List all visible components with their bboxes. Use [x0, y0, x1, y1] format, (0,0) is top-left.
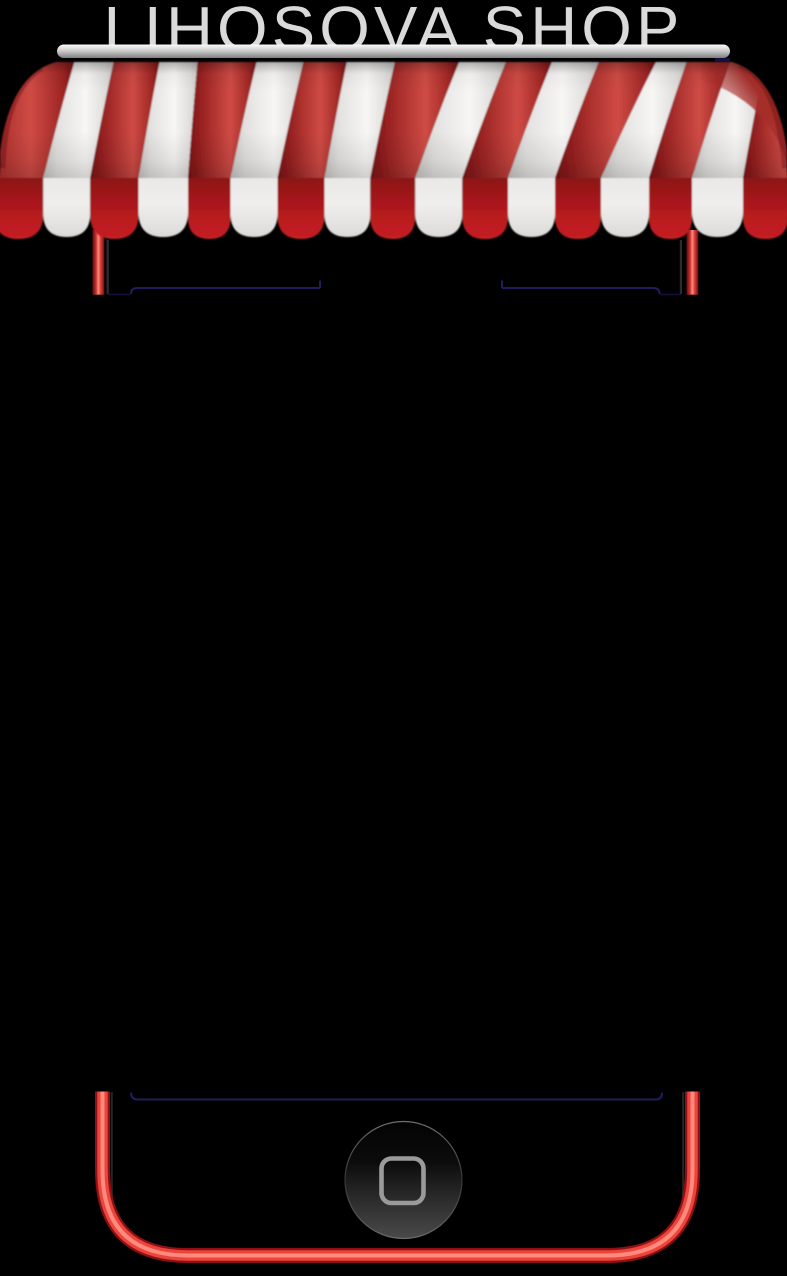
screen border top tick right of gap	[501, 281, 503, 289]
left pole inner dark edge	[107, 240, 109, 294]
awning top rail	[57, 45, 730, 59]
awning scalloped tabs	[0, 172, 787, 239]
screen border bottom navy line	[131, 1093, 662, 1100]
screen border top tick left of gap	[319, 281, 321, 289]
small navy mark at rail right end	[715, 58, 730, 62]
right corner rim shading	[740, 63, 787, 168]
awning canopy stripes	[0, 58, 787, 178]
screen border top-right navy segment	[502, 288, 660, 294]
screen border top-left faint extension	[108, 294, 130, 296]
left pole	[93, 230, 105, 295]
home button rounded square	[382, 1159, 424, 1204]
phone inner dark edge line (bottom U)	[112, 1092, 683, 1250]
screen border top-left navy segment	[131, 288, 320, 294]
screen border top-right faint extension	[661, 294, 682, 296]
phone red frame tube (mid bright layer)	[103, 1092, 693, 1256]
phone red frame tube (center highlight)	[103, 1092, 693, 1256]
left corner rim shading	[0, 66, 40, 168]
canopy vertical shading	[0, 58, 787, 178]
right pole	[687, 230, 699, 295]
top-right corner red wrap (soft)	[695, 58, 787, 165]
home button circle	[345, 1122, 462, 1239]
right pole inner dark edge	[680, 240, 682, 294]
phone red frame tube (outer dark layer)	[103, 1092, 693, 1256]
